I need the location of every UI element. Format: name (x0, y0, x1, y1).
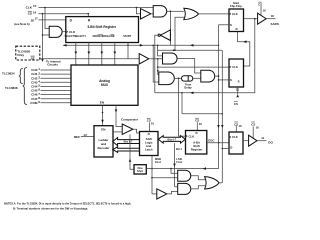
and gate G4a (158, 45, 201, 73)
wire start FF out (244, 18, 258, 20)
wire horizontal y113.8 (182, 93, 223, 115)
svg-text:Circuits: Circuits (47, 63, 58, 67)
wire long line y93 (155, 19, 255, 94)
buffer B1 (141, 9, 151, 19)
dashed box TLC0838 only (16, 46, 40, 60)
svg-text:EN: EN (101, 127, 105, 131)
wire mux out to comparator (115, 105, 123, 126)
5-bit shift register U1 (65, 17, 139, 43)
svg-text:Bits 0-7: Bits 0-7 (167, 138, 176, 141)
svg-text:(see Note A): (see Note A) (14, 22, 30, 26)
svg-text:Flip-Flop: Flip-Flop (230, 4, 242, 8)
and gate G5 (201, 70, 219, 82)
pin CS 16 (28, 10, 37, 15)
wire vertical V1 (217, 25, 220, 169)
pin REF 12 (74, 133, 94, 139)
comparator U4 (113, 118, 140, 135)
svg-text:D: D (230, 145, 232, 149)
svg-text:B: Terminal numbers shown are: B: Terminal numbers shown are for the DW… (13, 206, 88, 210)
label LSB First (173, 157, 182, 167)
svg-text:SGL/DIF: SGL/DIF (105, 35, 115, 38)
svg-text:16: 16 (199, 122, 202, 126)
wire B1 to AND1 (151, 13, 153, 15)
svg-text:MUX: MUX (101, 83, 109, 87)
wire G4b out down to 9-bit CLK (179, 78, 186, 136)
brace TLC0838 (5, 68, 27, 105)
wire to D input (222, 148, 229, 150)
svg-text:EOC: EOC (208, 139, 214, 143)
svg-text:SELECT1: SELECT1 (75, 35, 87, 38)
wire SE / START to buffer (40, 58, 139, 60)
svg-text:SARS: SARS (271, 22, 279, 26)
wire S input of U9 (219, 79, 230, 81)
select wires to mux (75, 43, 117, 66)
wire CS to 9-bit register (195, 118, 202, 130)
output flip-flop U7 (229, 132, 243, 154)
svg-text:16: 16 (151, 121, 154, 125)
wire DI (39, 19, 66, 21)
svg-text:CS: CS (28, 12, 32, 16)
tri-state buffer DO (249, 135, 274, 146)
and gate G1 (153, 6, 170, 17)
wire long horizontal A (63, 44, 219, 47)
svg-text:TLC0838: TLC0838 (5, 86, 18, 90)
and gate G4b (153, 45, 181, 84)
and gate G0 (49, 26, 66, 37)
wire MSB first (151, 156, 161, 194)
one shot U10 (134, 165, 146, 174)
wire CS to output flip-flop (234, 122, 242, 132)
pins CH0-CH7 COM (30, 67, 40, 105)
svg-text:REF: REF (74, 135, 80, 139)
svg-text:Comparator: Comparator (121, 118, 139, 122)
svg-text:Register: Register (191, 148, 203, 152)
analog mux U2 (71, 65, 138, 105)
svg-text:ODD/EVEN: ODD/EVEN (93, 35, 106, 38)
wire Bit 1 (175, 143, 183, 187)
svg-text:16: 16 (33, 10, 37, 14)
svg-text:NOTES A: For the TLC0834, DI i: NOTES A: For the TLC0834, DI is input di… (4, 202, 131, 206)
9-bit shift register U6 (186, 131, 207, 155)
or gate G8 (205, 177, 223, 189)
svg-text:TLC0834: TLC0834 (2, 71, 15, 75)
wire CS to SARS buffer (258, 2, 266, 16)
wire vertical V2 (221, 50, 224, 183)
wires CH0-COM to mux (41, 70, 72, 103)
svg-text:CLK: CLK (189, 135, 195, 139)
ladder and decoder U3 (94, 126, 113, 157)
svg-text:9: 9 (38, 100, 40, 104)
wire LSB to G7 (175, 186, 178, 188)
svg-text:14: 14 (261, 136, 264, 140)
wire to G6 inputs (152, 169, 178, 178)
and gate G7 (178, 183, 205, 194)
svg-text:R: R (238, 81, 240, 84)
buffer B3 (157, 189, 178, 199)
bus Bits 0-7 SAR to 9-bit register (158, 136, 185, 144)
svg-text:CLK: CLK (26, 5, 33, 9)
svg-text:COM: COM (30, 101, 38, 105)
tri-state buffer SARS (258, 13, 279, 26)
wire START (127, 43, 129, 59)
pin DI 17 (see Note A) (14, 16, 38, 26)
svg-text:Bits 0-7: Bits 0-7 (124, 141, 133, 144)
svg-text:CS: CS (258, 2, 262, 6)
svg-text:CLK: CLK (232, 65, 238, 69)
svg-text:16: 16 (256, 125, 259, 129)
svg-text:Delay: Delay (184, 86, 192, 90)
wire R of start flip-flop (238, 32, 250, 67)
svg-text:Latch: Latch (145, 147, 153, 151)
bus Bits 0-7 SAR to ladder (113, 138, 140, 146)
wire one shot input (129, 134, 134, 169)
svg-text:Decoder: Decoder (97, 146, 110, 150)
wire CLK (39, 7, 154, 29)
wire OR input from below (174, 17, 184, 51)
wire CS (39, 13, 90, 59)
svg-text:17: 17 (35, 16, 39, 20)
svg-text:Only: Only (17, 53, 24, 57)
svg-text:EN: EN (100, 100, 104, 104)
pin CLK 15 (26, 4, 37, 9)
SAR logic and latch U5 (140, 132, 159, 156)
svg-text:CLK: CLK (69, 30, 76, 34)
wire FF to DO buffer (243, 140, 249, 142)
wire CS up into U9 (234, 87, 240, 106)
wire S input (219, 24, 230, 26)
and gate G6 (178, 170, 205, 181)
svg-text:DO: DO (268, 140, 273, 144)
or gate G2 (184, 8, 229, 19)
svg-text:15: 15 (33, 4, 37, 8)
svg-text:Bit 1: Bit 1 (176, 147, 182, 151)
wire CS to SAR (147, 118, 155, 131)
svg-text:START: START (123, 35, 131, 38)
wire EOC (207, 139, 229, 144)
time delay TD1 (182, 76, 201, 90)
svg-text:S: S (230, 23, 232, 27)
svg-text:18: 18 (271, 14, 274, 18)
wire branch to S-box CLK and G4b (157, 59, 229, 75)
start flip-flop U8 (229, 1, 244, 32)
svg-text:16: 16 (239, 124, 242, 128)
buffer B2 (139, 54, 162, 64)
brace TLC0834 (2, 69, 23, 84)
svg-text:Shot: Shot (137, 169, 143, 173)
svg-text:First: First (176, 160, 182, 164)
to internal circuits arrow (41, 59, 61, 67)
wire CS to DO buffer (251, 122, 259, 138)
svg-text:S: S (230, 78, 232, 82)
svg-text:5-Bit Shift Register: 5-Bit Shift Register (87, 25, 116, 29)
svg-text:CS: CS (234, 102, 238, 106)
svg-text:16: 16 (263, 8, 266, 12)
svg-text:First: First (155, 160, 161, 164)
svg-text:CLK: CLK (232, 12, 238, 16)
wire G1 out (170, 11, 184, 46)
svg-text:CLK: CLK (232, 135, 238, 139)
S-box shift latch U9 (229, 59, 244, 87)
bus lower SAR to ladder (113, 147, 140, 153)
wire one shot out (146, 167, 218, 170)
wire EN chain (101, 105, 104, 125)
wire horizontal B (158, 49, 223, 51)
svg-text:SE: SE (31, 56, 35, 60)
inverter G3 (155, 30, 171, 93)
svg-text:CS: CS (251, 122, 255, 126)
